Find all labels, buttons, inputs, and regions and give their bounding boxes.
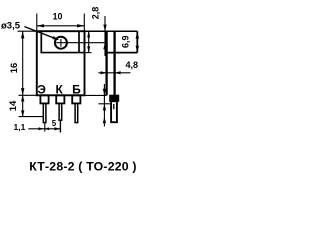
dimension 6,9 arrow bottom (136, 46, 139, 53)
svg-text:2,8: 2,8 (91, 7, 101, 20)
dimension 10 extension left (36, 14, 38, 31)
dimension o3,5 leader line (25, 27, 58, 40)
svg-text:ø3,5: ø3,5 (1, 21, 21, 32)
auxiliary dimension arrow top (87, 31, 90, 37)
svg-text:Э: Э (37, 82, 46, 96)
pin 1 centerline extension (44, 123, 46, 132)
side view pin lead (111, 101, 117, 122)
svg-text:КТ-28-2 ( ТО-220 ): КТ-28-2 ( ТО-220 ) (29, 159, 136, 173)
dimension 4,8 line left segment (98, 72, 114, 74)
dimension 16 extension tick top (18, 30, 37, 32)
pin end extension tick (19, 116, 45, 118)
pin 2 shoulder (56, 95, 64, 103)
hole horizontal centerline to 2,8 dimension (56, 42, 105, 44)
pin 3 shoulder (72, 95, 80, 103)
side view back face (105, 31, 107, 95)
side view front face (113, 31, 115, 95)
side dimension arrow up to pin end (103, 117, 106, 124)
pin 1 lead (43, 103, 46, 122)
svg-text:10: 10 (53, 12, 63, 22)
dimension 14 arrow bottom (21, 110, 24, 116)
side view body box bottom edge (107, 52, 137, 54)
hole vertical center dash (60, 39, 62, 47)
tab window left inner edge (40, 32, 42, 53)
front view body outline (37, 31, 85, 95)
dimension 4,8 arrow right (115, 71, 121, 74)
dimension 14 arrow top (21, 95, 24, 101)
dimension o3,5 leader arrow (52, 36, 59, 40)
svg-text:Б: Б (72, 82, 81, 96)
side view body box right edge (136, 31, 138, 52)
body bottom extension tick (19, 94, 37, 96)
auxiliary vertical dimension line at x88.7 (88, 31, 90, 52)
dimension 10 arrow right (77, 24, 84, 27)
dimension 4,8 line right segment (115, 72, 131, 74)
dimension 16 line (22, 31, 24, 95)
dimension 5 arrow right (54, 127, 60, 130)
svg-text:16: 16 (9, 63, 20, 74)
dimension 2,8 line (104, 16, 106, 56)
pin 3 lead (75, 103, 78, 122)
dimension 1,1 and 5 line (28, 128, 61, 130)
pin 1 shoulder (40, 95, 48, 103)
side dimension arrow up to shoulder bottom (103, 104, 106, 111)
dimension 16 arrow top (21, 31, 24, 38)
dimension 6,9 arrow top (136, 32, 139, 39)
dimension 2,8 arrow upper (103, 25, 106, 32)
body bottom projection to side view (85, 94, 107, 96)
svg-text:4,8: 4,8 (126, 60, 139, 70)
side dimension arrow down to body bottom (103, 89, 106, 96)
shoulder bottom projection line (98, 103, 110, 105)
dimension 10 line (37, 25, 85, 27)
tab window right inner edge (78, 32, 80, 53)
svg-text:К: К (56, 82, 64, 96)
pin 2 lead (59, 103, 62, 120)
tab window bottom edge (40, 52, 84, 54)
dimension 2,8 arrow lower (103, 43, 106, 50)
dimension 14 line (22, 95, 24, 116)
window bottom projection tick (85, 52, 92, 54)
side view pin inner dash (113, 104, 115, 109)
svg-text:14: 14 (8, 100, 19, 111)
svg-text:6,9: 6,9 (121, 36, 131, 49)
dimension 10 arrow left (37, 24, 44, 27)
dimension 16 arrow bottom (21, 88, 24, 95)
auxiliary dimension arrow bottom (87, 46, 90, 52)
side dimension line x105 lower (103, 84, 105, 127)
dimension 10 extension right (83, 14, 85, 31)
dimension 1,1 arrow (39, 127, 44, 130)
svg-text:1,1: 1,1 (14, 122, 26, 132)
svg-text:5: 5 (52, 119, 57, 128)
pin 2 centerline extension (59, 121, 61, 133)
mounting hole circle (55, 37, 67, 49)
top edge projection line to side view (85, 30, 138, 32)
dimension 5 arrow left (45, 127, 49, 130)
dimension 4,8 arrow left (101, 71, 107, 74)
side view pin shoulder (110, 95, 119, 101)
